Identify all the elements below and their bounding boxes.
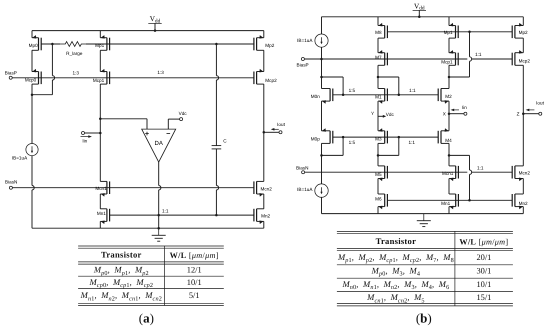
svg-text:W/L [μm/μm]: W/L [μm/μm] — [170, 251, 219, 260]
svg-text:Mn1: Mn1 — [97, 211, 106, 216]
ground (b) — [423, 214, 425, 221]
node X junction — [448, 112, 451, 115]
svg-text:5/1: 5/1 — [189, 291, 200, 300]
svg-text:Mcn1: Mcn1 — [442, 171, 454, 176]
svg-text:M7: M7 — [375, 55, 382, 60]
node: sense to Mn gate row — [468, 199, 471, 202]
svg-text:1:1: 1:1 — [408, 140, 415, 145]
svg-text:Mcn2: Mcn2 — [261, 186, 273, 191]
svg-text:BiasN: BiasN — [5, 180, 17, 185]
svg-text:(a): (a) — [139, 310, 154, 325]
svg-text:Y: Y — [371, 111, 374, 116]
current source IB=1uA (a) — [26, 144, 38, 156]
svg-text:M2: M2 — [445, 94, 452, 99]
svg-text:Mcp1: Mcp1 — [441, 59, 453, 64]
svg-text:Mcp2: Mcp2 — [265, 78, 277, 83]
wire: sense column x=216.4 lower (hop over BiasN) — [216, 149, 218, 215]
transistor M2 — [440, 89, 442, 102]
transistor Mn1 (b) — [455, 194, 457, 207]
svg-text:1:1: 1:1 — [162, 209, 169, 214]
node: opamp output to gate row — [157, 214, 160, 217]
transistor Mn1 — [106, 209, 108, 222]
wire: gate row Mp0-Mp1-Mp2 y=44 — [41, 43, 60, 45]
svg-text:Mn2: Mn2 — [261, 214, 270, 219]
node: output column to ground rail — [157, 227, 160, 230]
table (a) bottom double rule — [78, 302, 224, 304]
wire: connector (32,94.7)-(52.4,94.7) — [32, 94, 52, 96]
svg-text:Mcn1: Mcn1 — [95, 186, 107, 191]
wire: BiasN row y=172.2 with hop at x=469.5 — [305, 171, 468, 173]
svg-text:Iout: Iout — [277, 122, 285, 127]
terminal Iin (a) — [82, 132, 85, 135]
transistor Mcn2 (b) — [514, 166, 516, 179]
svg-text:Vdc: Vdc — [179, 111, 188, 116]
node: M3 diode loop — [398, 136, 401, 139]
table (b) top double rule — [337, 230, 513, 232]
resistor R_large — [60, 42, 86, 47]
transistor Mcp0 — [38, 72, 40, 85]
wire: bottom rail (b) — [322, 213, 524, 215]
wire: vertical x=52.4 with hop over BiasP — [52, 44, 54, 95]
wire: 1:1 gate row y=215.1 — [110, 214, 254, 216]
svg-text:Mp2: Mp2 — [519, 30, 528, 35]
svg-text:Iin: Iin — [462, 105, 467, 110]
wire: column x=449 (b) — [448, 17, 450, 26]
transistor Mcp1 (b) — [455, 53, 457, 66]
svg-text:1:1: 1:1 — [475, 52, 482, 57]
transistor Mp2 — [256, 38, 258, 51]
svg-text:Mp1: Mp1 — [444, 30, 453, 35]
node: Mcp1 drain sense junction — [448, 76, 451, 79]
wire: opamp + input wire — [100, 118, 147, 120]
wire: sense column x=216.4 upper (hop over BiasP) — [216, 44, 218, 146]
transistor M6 — [384, 194, 386, 207]
transistor Mp1 (b) — [455, 26, 457, 39]
svg-text:X: X — [443, 112, 446, 117]
wire: sense line x=469.5 upper with hop over BiasP row — [470, 32, 472, 77]
transistor M3 — [384, 131, 386, 144]
wire: top Vdd rail (b) — [322, 16, 524, 18]
svg-text:W/L [μm/μm]: W/L [μm/μm] — [459, 237, 508, 246]
current source IB=1uA bottom (b) — [315, 184, 328, 197]
svg-text:15/1: 15/1 — [476, 293, 491, 302]
node A: R_large/Mcp0 drain junction — [51, 43, 54, 46]
svg-text:(b): (b) — [416, 310, 432, 325]
table (b) header rule — [337, 247, 513, 249]
transistor Mcp2 (b) — [514, 53, 516, 66]
transistor Mcp1 — [106, 72, 108, 85]
transistor Mp2 (b) — [514, 26, 516, 39]
wire: sense line x=469.5 lower with hop over BiasN row — [470, 155, 472, 200]
table (b) row rules — [337, 264, 513, 266]
transistor Mp1 — [106, 38, 108, 51]
svg-text:Mcn2: Mcn2 — [519, 170, 531, 175]
table (a) row rules — [78, 275, 224, 277]
wire: left branch vertical x=32 (a) — [31, 31, 33, 38]
svg-text:20/1: 20/1 — [476, 253, 491, 262]
svg-text:M0n: M0n — [311, 94, 320, 99]
terminal Iin (b) — [449, 113, 464, 115]
wire: middle branch x=100.3 (a) — [99, 31, 101, 38]
svg-text:M5: M5 — [375, 172, 382, 177]
svg-text:Transistor: Transistor — [101, 250, 142, 260]
table (a) column divider — [164, 246, 166, 306]
wire: bottom rail (a) — [32, 227, 264, 229]
wire: M0p/M3/M4 gate row y=137.1 — [333, 136, 438, 138]
current source IB=1uA top (b) — [321, 17, 323, 34]
terminal Vdc (a) — [180, 118, 183, 121]
svg-text:Iin: Iin — [82, 139, 87, 144]
svg-text:Z: Z — [517, 112, 520, 117]
wire: right branch x=523.3 (b) — [522, 17, 524, 26]
svg-text:M8: M8 — [375, 30, 382, 35]
table (b) bottom double rule — [337, 303, 513, 305]
terminal BiasN (b) — [302, 171, 305, 174]
svg-text:IB=1uA: IB=1uA — [297, 187, 313, 192]
wire: M0n/M1/M2 gate row y=94.8 — [333, 94, 438, 96]
ground (a) — [158, 228, 160, 235]
svg-text:1:5: 1:5 — [349, 88, 356, 93]
svg-text:Mp1: Mp1 — [95, 43, 104, 48]
svg-text:Vdc: Vdc — [386, 112, 395, 117]
svg-text:M1: M1 — [375, 94, 382, 99]
wire: left branch x=321.5 middle (b) — [321, 59, 323, 89]
svg-text:M4: M4 — [445, 138, 452, 143]
svg-text:Mcp1: Mcp1 — [93, 78, 105, 83]
wire: top Vdd rail (a) — [32, 30, 264, 32]
wire: M6/Mn gate row y=200.3 — [387, 199, 512, 201]
wire: opamp - input to Vdc — [167, 119, 169, 129]
svg-text:Transistor: Transistor — [376, 236, 417, 246]
wire: BiasN row y=187.7 — [13, 187, 254, 189]
node: Vdd tick junction — [154, 29, 157, 32]
terminal Iout (b) — [523, 113, 538, 115]
transistor M5 — [384, 166, 386, 179]
node: Iout junction (a) — [263, 131, 266, 134]
svg-text:1:5: 1:5 — [349, 140, 356, 145]
svg-text:1:3: 1:3 — [157, 70, 164, 75]
terminal Iout (a) — [264, 131, 279, 133]
wire: opamp output vertical with hop over BiasN — [159, 162, 161, 215]
svg-text:M6: M6 — [375, 197, 382, 202]
transistor M0p — [329, 131, 331, 144]
wire: Mp gate row y=31.8 — [387, 31, 512, 33]
svg-text:BiasP: BiasP — [297, 63, 309, 68]
node: M0p loop junction — [320, 154, 323, 157]
svg-text:R_large: R_large — [66, 51, 83, 56]
annotation: Iin arrow — [81, 136, 90, 138]
svg-text:M0p: M0p — [311, 137, 320, 142]
transistor Mcn1 (b) — [455, 166, 457, 179]
annotation: Iout arrow — [273, 128, 279, 130]
node Z junction — [522, 112, 525, 115]
svg-text:1:3: 1:3 — [72, 70, 79, 75]
node: Mp1 gate sense junction — [468, 31, 471, 34]
table (a) top double rule — [78, 245, 224, 247]
svg-text:Mcp2: Mcp2 — [519, 58, 531, 63]
svg-text:DA: DA — [155, 140, 163, 147]
svg-text:10/1: 10/1 — [476, 280, 491, 289]
svg-text:12/1: 12/1 — [187, 266, 202, 275]
capacitor C — [212, 145, 222, 147]
svg-text:BiasN: BiasN — [296, 165, 308, 170]
transistor Mcn2 — [256, 181, 258, 194]
transistor Mn2 — [256, 209, 258, 222]
op-amp DA — [142, 129, 176, 162]
svg-text:Mn2: Mn2 — [519, 201, 528, 206]
svg-text:IB=1uA: IB=1uA — [297, 38, 313, 43]
wire: BiasP/cascode gate row y=59 with hop at x=469.5 — [305, 58, 468, 60]
transistor M7 — [384, 53, 386, 66]
table (b) column divider — [454, 231, 456, 306]
svg-text:BiasP: BiasP — [5, 70, 17, 75]
transistor Mcp2 — [256, 72, 258, 85]
node: junction at (32,94.7) — [31, 93, 34, 96]
transistor Mn2 (b) — [514, 194, 516, 207]
transistor Mp0 — [38, 38, 40, 51]
svg-text:10/1: 10/1 — [187, 278, 202, 287]
transistor M1 — [384, 89, 386, 102]
transistor Mcn1 — [106, 181, 108, 194]
wire: right branch x=263.8 (a) — [263, 31, 265, 38]
svg-text:Mp0: Mp0 — [29, 43, 38, 48]
svg-text:M3: M3 — [375, 137, 382, 142]
svg-text:Mp2: Mp2 — [265, 43, 274, 48]
node: input node junction (opamp +) — [99, 118, 102, 121]
node: BiasP junction (b) — [320, 58, 323, 61]
node: sense line junction x=216.4 — [215, 43, 218, 46]
wire: IB to BiasP node — [321, 47, 323, 59]
node: sense column to 1:1 row — [215, 214, 218, 217]
svg-text:IB=1uA: IB=1uA — [12, 156, 28, 161]
node: Iin junction — [99, 132, 102, 135]
table (a) header rule — [78, 261, 224, 263]
svg-text:30/1: 30/1 — [476, 267, 491, 276]
node: Vdd tick junction (b) — [418, 16, 421, 19]
transistor M0n — [329, 89, 331, 102]
wire: BiasP row y=77.8 — [12, 77, 254, 79]
transistor M8 — [384, 26, 386, 39]
node: M0p diode loop — [342, 136, 345, 139]
svg-text:1:1: 1:1 — [409, 88, 416, 93]
terminal BiasP (b) — [301, 58, 304, 61]
node: M4 drain loop junction — [448, 154, 451, 157]
svg-text:Mn1: Mn1 — [441, 201, 450, 206]
wire: column x=378 (b) — [377, 17, 379, 26]
wire: left branch below IB with hop over BiasN — [32, 156, 34, 229]
svg-text:1:1: 1:1 — [477, 165, 484, 170]
transistor M4 — [440, 131, 442, 144]
node: M0n diode loop — [320, 76, 323, 79]
node: M1 diode loop — [377, 76, 380, 79]
svg-text:Iout: Iout — [536, 101, 544, 106]
